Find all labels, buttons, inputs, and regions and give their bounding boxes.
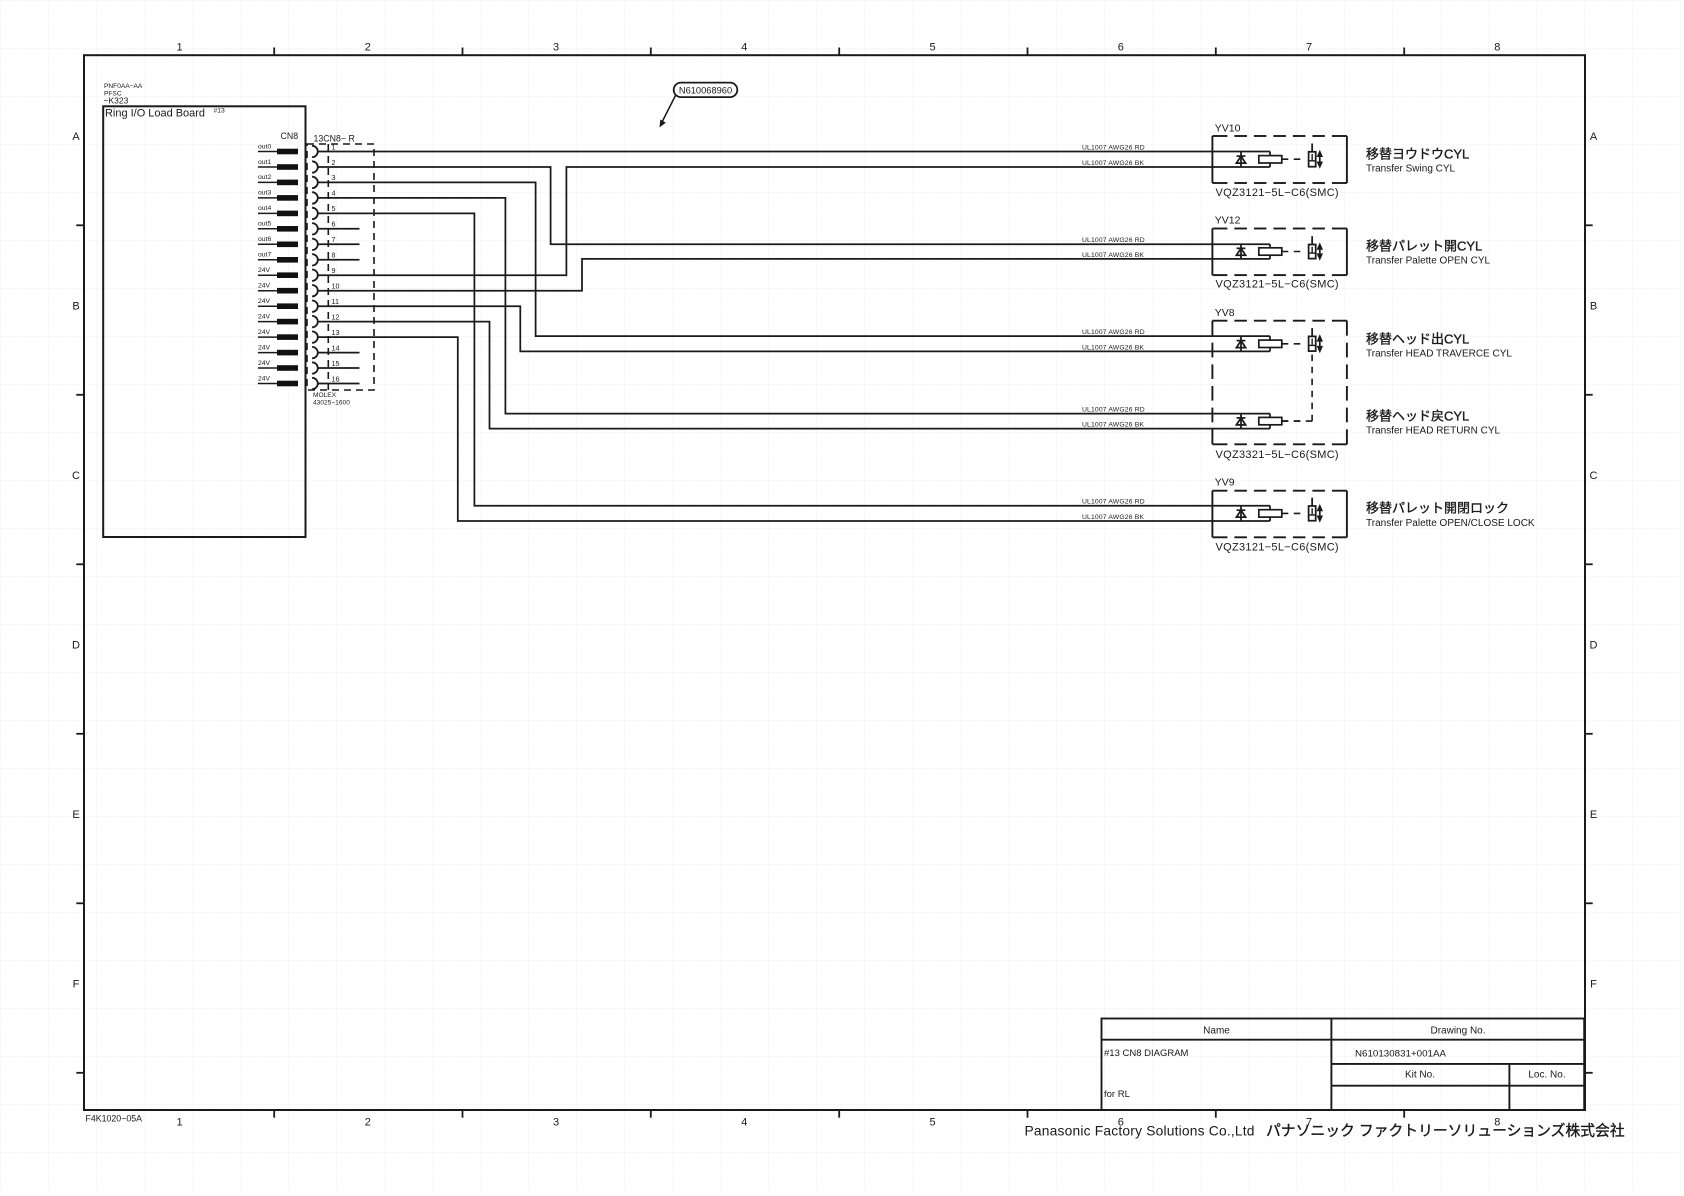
YV9 coil: flyback diode: [1240, 506, 1242, 521]
wire pin10 -> YV12 BK: [318, 259, 1270, 291]
svg-text:Transfer HEAD TRAVERCE CYL: Transfer HEAD TRAVERCE CYL: [1366, 349, 1512, 360]
wire pin11 -> YV8 traverse BK: [318, 306, 1270, 351]
border frame: [84, 55, 1585, 1110]
balloon leader arrow: [661, 96, 676, 125]
svg-text:Transfer HEAD RETURN CYL: Transfer HEAD RETURN CYL: [1366, 426, 1501, 437]
svg-text:Name: Name: [1203, 1026, 1230, 1037]
title block table: [1102, 1019, 1585, 1111]
svg-text:out7: out7: [258, 252, 271, 259]
svg-text:E: E: [72, 809, 79, 821]
frame column ticks: [273, 48, 275, 56]
svg-text:移替ヨウドウCYL: 移替ヨウドウCYL: [1366, 147, 1469, 162]
svg-text:UL1007 AWG26 BK: UL1007 AWG26 BK: [1082, 514, 1144, 521]
13CN8-R socket contact pin 10: [312, 285, 318, 296]
svg-text:24V: 24V: [258, 283, 271, 290]
svg-text:2: 2: [365, 42, 371, 54]
svg-text:CN8: CN8: [281, 131, 299, 141]
wire pin13 -> YV9 BK: [318, 337, 1270, 521]
13CN8-R socket contact pin 14: [312, 347, 318, 358]
svg-text:24V: 24V: [258, 329, 271, 336]
svg-text:13: 13: [332, 328, 340, 337]
YV8 return coil: dashed link: [1282, 420, 1305, 422]
svg-text:14: 14: [332, 343, 340, 352]
YV8 traverse coil: solenoid coil: [1259, 340, 1282, 347]
svg-text:N610068960: N610068960: [679, 86, 732, 96]
YV8 traverse coil: manual override symbol: [1309, 336, 1316, 351]
svg-text:UL1007 AWG26 RD: UL1007 AWG26 RD: [1082, 499, 1145, 506]
svg-text:VQZ3321−5L−C6(SMC): VQZ3321−5L−C6(SMC): [1216, 449, 1339, 461]
svg-text:1: 1: [332, 142, 336, 151]
wire stub pin8: [318, 259, 360, 261]
svg-text:1: 1: [176, 1117, 182, 1129]
svg-text:6: 6: [1118, 42, 1124, 54]
YV8 return coil: flyback diode: [1240, 414, 1242, 429]
13CN8-R socket contact pin 15: [312, 362, 318, 373]
svg-text:24V: 24V: [258, 267, 271, 274]
svg-text:2: 2: [365, 1117, 371, 1129]
svg-text:3: 3: [332, 173, 336, 182]
YV9 coil: dashed link: [1282, 512, 1305, 514]
13CN8-R socket contact pin 11: [312, 301, 318, 312]
YV8 return coil: solenoid coil: [1259, 417, 1282, 424]
svg-text:B: B: [1590, 301, 1597, 313]
svg-text:Transfer Palette OPEN/CLOSE: Transfer Palette OPEN/CLOSE LOCK: [1366, 518, 1535, 529]
svg-text:4: 4: [741, 1117, 747, 1129]
svg-text:移替パレット開閉ロック: 移替パレット開閉ロック: [1366, 501, 1509, 516]
solenoid valve YV9 dashed enclosure: [1211, 491, 1213, 538]
svg-text:out6: out6: [258, 236, 271, 243]
svg-text:MOLEX: MOLEX: [313, 392, 337, 399]
svg-text:11: 11: [332, 297, 339, 306]
solenoid valve YV12 dashed enclosure: [1211, 229, 1213, 276]
svg-text:移替ヘッド出CYL: 移替ヘッド出CYL: [1366, 332, 1469, 347]
svg-text:UL1007 AWG26 RD: UL1007 AWG26 RD: [1082, 329, 1145, 336]
connector 13CN8-R dashed body: [307, 144, 374, 390]
YV12 coil: flyback diode: [1240, 244, 1242, 259]
svg-text:UL1007 AWG26 BK: UL1007 AWG26 BK: [1082, 160, 1144, 167]
13CN8-R socket contact pin 12: [312, 316, 318, 327]
revision balloon N610068960: [674, 83, 738, 98]
13CN8-R socket contact pin 9: [312, 270, 318, 281]
svg-text:24V: 24V: [258, 298, 271, 305]
svg-text:#13 CN8 DIAGRAM: #13 CN8 DIAGRAM: [1104, 1048, 1189, 1059]
wire pin12 -> YV8 return BK: [318, 322, 1270, 429]
svg-text:12: 12: [332, 312, 340, 321]
svg-text:43025−1600: 43025−1600: [313, 400, 350, 407]
svg-text:VQZ3121−5L−C6(SMC): VQZ3121−5L−C6(SMC): [1216, 542, 1339, 554]
svg-text:6: 6: [332, 220, 336, 229]
YV12 coil: dashed link: [1282, 251, 1305, 253]
svg-text:5: 5: [332, 204, 336, 213]
wire stub pin6: [318, 228, 360, 230]
YV8 traverse coil: inner rectangle right edge: [1269, 336, 1271, 351]
svg-text:F: F: [73, 979, 80, 991]
YV8 return coil: dashed link to override: [1282, 420, 1312, 422]
svg-text:1: 1: [176, 42, 182, 54]
svg-text:15: 15: [332, 359, 340, 368]
svg-text:7: 7: [332, 235, 336, 244]
svg-text:移替パレット開CYL: 移替パレット開CYL: [1366, 239, 1482, 254]
YV9 coil: manual override symbol: [1309, 506, 1316, 521]
YV8 traverse coil: dashed link: [1282, 343, 1305, 345]
svg-text:2: 2: [332, 158, 336, 167]
13CN8-R socket contact pin 7: [312, 239, 318, 250]
YV9 coil: inner rectangle right edge: [1269, 506, 1271, 521]
YV12 coil: double arrow: [1319, 247, 1321, 257]
svg-text:A: A: [72, 131, 80, 143]
svg-text:#13: #13: [214, 108, 226, 115]
YV8 traverse coil: flyback diode: [1240, 336, 1242, 351]
connector 13CN8-R inner dashed line: [327, 144, 329, 390]
svg-text:C: C: [1590, 470, 1598, 482]
svg-text:VQZ3121−5L−C6(SMC): VQZ3121−5L−C6(SMC): [1216, 187, 1339, 199]
svg-text:out1: out1: [258, 159, 271, 166]
svg-text:A: A: [1590, 131, 1598, 143]
solenoid valve YV8 dashed enclosure: [1211, 321, 1213, 336]
YV12 coil: solenoid coil: [1259, 248, 1282, 255]
13CN8-R socket contact pin 5: [312, 208, 318, 219]
13CN8-R socket contact pin 2: [312, 161, 318, 172]
YV10 coil: solenoid coil: [1259, 156, 1282, 163]
YV12 coil: inner rectangle right edge: [1269, 244, 1271, 259]
svg-text:UL1007 AWG26 BK: UL1007 AWG26 BK: [1082, 422, 1144, 429]
svg-text:UL1007 AWG26 RD: UL1007 AWG26 RD: [1082, 145, 1145, 152]
svg-text:24V: 24V: [258, 360, 271, 367]
13CN8-R socket contact pin 16: [312, 378, 318, 389]
svg-text:D: D: [1590, 640, 1598, 652]
svg-text:−K323: −K323: [104, 96, 129, 106]
svg-text:Ring I/O Load Board: Ring I/O Load Board: [105, 108, 205, 120]
wire stub pin7: [318, 243, 360, 245]
svg-text:VQZ3121−5L−C6(SMC): VQZ3121−5L−C6(SMC): [1216, 279, 1339, 291]
svg-text:24V: 24V: [258, 344, 271, 351]
wire pin9 -> YV10 BK: [318, 167, 1270, 275]
svg-text:5: 5: [929, 1117, 935, 1129]
svg-text:YV9: YV9: [1215, 477, 1235, 489]
solenoid valve YV10 dashed enclosure: [1211, 136, 1213, 183]
svg-text:UL1007 AWG26 BK: UL1007 AWG26 BK: [1082, 252, 1144, 259]
YV9 coil: solenoid coil: [1259, 510, 1282, 517]
svg-text:5: 5: [929, 42, 935, 54]
svg-text:UL1007 AWG26 RD: UL1007 AWG26 RD: [1082, 237, 1145, 244]
13CN8-R socket contact pin 6: [312, 223, 318, 234]
YV10 coil: manual override symbol: [1309, 152, 1316, 167]
svg-text:Drawing No.: Drawing No.: [1430, 1026, 1485, 1037]
wire stub pin14: [318, 352, 360, 354]
svg-text:10: 10: [332, 282, 340, 291]
svg-text:移替ヘッド戻CYL: 移替ヘッド戻CYL: [1366, 409, 1469, 424]
svg-text:パナソニック ファクトリーソリューションズ株式会社: パナソニック ファクトリーソリューションズ株式会社: [1266, 1123, 1625, 1140]
13CN8-R socket contact pin 3: [312, 177, 318, 188]
board K323 Ring I/O Load Board box: [103, 106, 305, 537]
svg-text:F4K1020−05A: F4K1020−05A: [86, 1114, 143, 1124]
svg-text:8: 8: [332, 251, 336, 260]
svg-text:4: 4: [741, 42, 747, 54]
YV8 return coil: inner rectangle right edge: [1269, 414, 1271, 429]
frame row ticks: [76, 224, 84, 226]
svg-text:16: 16: [332, 374, 340, 383]
svg-text:C: C: [72, 470, 80, 482]
svg-text:out2: out2: [258, 174, 271, 181]
svg-text:for RL: for RL: [1104, 1089, 1130, 1100]
svg-text:UL1007 AWG26 RD: UL1007 AWG26 RD: [1082, 407, 1145, 414]
svg-text:YV12: YV12: [1215, 215, 1241, 227]
svg-text:7: 7: [1306, 42, 1312, 54]
svg-text:9: 9: [332, 266, 336, 275]
13CN8-R socket contact pin 13: [312, 331, 318, 342]
svg-text:4: 4: [332, 189, 336, 198]
wire pin3 -> YV8 traverse RD: [318, 182, 1270, 336]
svg-text:24V: 24V: [258, 375, 271, 382]
svg-text:B: B: [72, 301, 79, 313]
svg-text:F: F: [1590, 979, 1597, 991]
svg-text:3: 3: [553, 42, 559, 54]
svg-text:Panasonic Factory Solutions Co: Panasonic Factory Solutions Co.,Ltd: [1025, 1124, 1255, 1139]
13CN8-R socket contact pin 1: [312, 146, 318, 157]
svg-text:D: D: [72, 640, 80, 652]
svg-text:out0: out0: [258, 143, 271, 150]
svg-text:Transfer Palette OPEN CYL: Transfer Palette OPEN CYL: [1366, 256, 1491, 267]
svg-text:UL1007 AWG26 BK: UL1007 AWG26 BK: [1082, 344, 1144, 351]
wire pin1 -> YV10 RD: [318, 151, 1270, 153]
YV8 traverse coil: double arrow: [1319, 339, 1321, 349]
YV10 coil: flyback diode: [1240, 152, 1242, 168]
svg-text:out4: out4: [258, 205, 271, 212]
13CN8-R socket contact pin 4: [312, 192, 318, 203]
svg-text:PNF0AA−AA: PNF0AA−AA: [104, 83, 143, 90]
YV10 coil: dashed link: [1282, 158, 1305, 160]
svg-text:Transfer Swing CYL: Transfer Swing CYL: [1366, 164, 1456, 175]
YV10 coil: double arrow: [1319, 154, 1321, 165]
YV10 coil: inner rectangle right edge: [1269, 152, 1271, 168]
svg-text:N610130831+001AA: N610130831+001AA: [1355, 1049, 1447, 1060]
wire pin2 -> YV12 RD: [318, 167, 1270, 244]
svg-text:3: 3: [553, 1117, 559, 1129]
wire stub pin16: [318, 383, 360, 385]
wire pin4 -> YV8 return RD: [318, 198, 1270, 414]
svg-text:8: 8: [1494, 42, 1500, 54]
svg-text:out3: out3: [258, 190, 271, 197]
YV9 coil: double arrow: [1319, 508, 1321, 518]
svg-text:YV8: YV8: [1215, 307, 1235, 319]
svg-text:Loc. No.: Loc. No.: [1528, 1070, 1565, 1081]
svg-text:Kit No.: Kit No.: [1405, 1070, 1435, 1081]
wire stub pin15: [318, 367, 360, 369]
13CN8-R socket contact pin 8: [312, 254, 318, 265]
svg-text:YV10: YV10: [1215, 123, 1241, 135]
svg-text:24V: 24V: [258, 313, 271, 320]
YV12 coil: manual override symbol: [1309, 245, 1316, 259]
svg-text:out5: out5: [258, 221, 271, 228]
svg-text:E: E: [1590, 809, 1597, 821]
wire pin5 -> YV9 RD: [318, 213, 1270, 505]
